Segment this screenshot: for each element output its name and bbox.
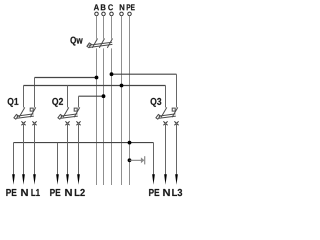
switch-disconnector Qw [87, 39, 113, 48]
wire output N2 [67, 123, 69, 175]
terminal label B [101, 4, 106, 10]
terminal circle B [102, 12, 106, 16]
circuit breaker Q1 [14, 107, 37, 125]
arrowhead N3 [164, 174, 167, 185]
wire rail phase C to Q3 [112, 73, 177, 75]
arrowhead PE3 [152, 174, 155, 185]
wire bus B upper [103, 16, 105, 39]
wire bus C lower [111, 48, 113, 185]
output label N1 [21, 189, 28, 196]
wire output L3 [176, 123, 178, 175]
terminal circle PE [128, 12, 132, 16]
output label L2 [75, 189, 85, 196]
node dot phase C tap [110, 72, 114, 76]
node dot PE tap [128, 141, 132, 145]
wire bus N [121, 16, 123, 185]
wire output N1 [23, 123, 25, 175]
arrowhead N1 [22, 174, 25, 185]
wire rail phase A to Q1 [35, 77, 97, 79]
wire rail PE distribution [13, 143, 15, 175]
circuit breaker Q2 [58, 107, 81, 125]
node dot phase B tap [102, 94, 106, 98]
output label L1 [31, 189, 39, 196]
circuit breaker Q3 [156, 107, 179, 125]
terminal circle N [120, 12, 124, 16]
arrowhead L1 [33, 174, 36, 185]
arrowhead L3 [175, 174, 178, 185]
label Qw [70, 37, 82, 46]
wire bus B lower [103, 48, 105, 185]
wire PE stub to earth continuation [130, 159, 142, 161]
output label PE1 [6, 189, 16, 196]
terminal label N [120, 4, 125, 10]
terminal label PE [127, 4, 135, 10]
wire bus PE [129, 16, 131, 185]
output label PE3 [149, 189, 159, 196]
node dot PE stub [128, 158, 132, 162]
wire rail phase B to Q2 [79, 95, 104, 97]
arrowhead PE1 [12, 174, 15, 185]
arrowhead L2 [77, 174, 80, 185]
wire bus A upper [96, 16, 98, 39]
wire bus C upper [111, 16, 113, 39]
wire neutral branch to Q2 [67, 86, 69, 108]
wire output L2 [78, 123, 80, 175]
arrowhead PE2 [56, 174, 59, 185]
arrowhead N2 [66, 174, 69, 185]
output label PE2 [50, 189, 60, 196]
wire output L1 [34, 123, 36, 175]
terminal circle C [110, 12, 114, 16]
earth continuation arrow [141, 156, 145, 164]
terminal circle A [95, 12, 99, 16]
wire rail neutral Q1 to Q3 [23, 86, 25, 108]
label Q1 [8, 98, 19, 107]
node dot neutral tap [120, 84, 124, 88]
wire PE branch group2 [57, 143, 59, 175]
output label N3 [163, 189, 170, 196]
node dot phase A tap [95, 76, 99, 80]
wire output N3 [165, 123, 167, 175]
terminal label C [108, 4, 113, 10]
wire bus A lower [96, 48, 98, 185]
terminal label A [94, 4, 99, 10]
label Q3 [151, 98, 162, 107]
label Q2 [52, 98, 63, 107]
output label N2 [65, 189, 72, 196]
output label L3 [172, 189, 182, 196]
